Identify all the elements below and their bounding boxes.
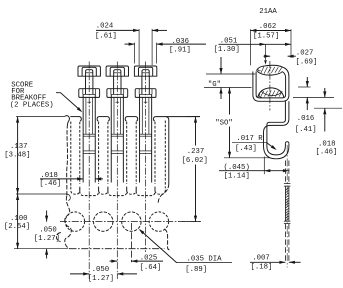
svg-text:[.46]: [.46] (315, 149, 337, 157)
ext line (314, 107, 342, 109)
svg-text:.024: .024 (96, 22, 114, 30)
pin 2 body (110, 95, 112, 183)
svg-text:[.43]: [.43] (235, 145, 257, 153)
S-bend to solder tail, left boundary (264, 101, 289, 159)
svg-text:[1.14]: [1.14] (224, 173, 250, 181)
svg-text:[.61]: [.61] (95, 32, 117, 40)
hole 3 CL extension (130, 223, 132, 262)
pin 2 stem (113, 76, 115, 94)
pin 2 centerline (116, 62, 118, 280)
pin 3 slot walls (136, 117, 138, 122)
pin 2 lower cap (107, 89, 128, 98)
ext line right (290, 29, 292, 58)
strip top edge (70, 116, 79, 118)
label "SO" (229, 88, 231, 115)
ext line hook bottom (224, 157, 270, 159)
ext top (16, 116, 64, 118)
solder tail (broken view) (284, 161, 286, 184)
pin 3 top cap (134, 66, 156, 76)
pin 3 body (139, 95, 141, 183)
ext line inner-bottom (293, 96, 334, 98)
pin 3 lower cap (135, 89, 156, 98)
pin 1 lower cap (79, 89, 100, 98)
svg-text:[.46]: [.46] (39, 180, 61, 188)
right break lower (165, 229, 172, 250)
svg-text:.017 R: .017 R (236, 135, 263, 143)
svg-text:[.64]: [.64] (140, 264, 162, 272)
left edge scallop (56, 233, 60, 242)
svg-text:.062: .062 (259, 23, 277, 31)
left web outer wall (70, 122, 72, 187)
hole 3 (122, 212, 141, 231)
pin 1 body (82, 95, 84, 183)
svg-text:.100: .100 (10, 215, 28, 223)
svg-text:[.89]: [.89] (185, 266, 207, 274)
right web outer wall (164, 121, 166, 187)
side view sheet inner boundary (256, 72, 286, 98)
svg-text:.016: .016 (297, 115, 315, 123)
svg-text:(2 PLACES): (2 PLACES) (10, 101, 54, 109)
svg-text:.007: .007 (252, 255, 270, 263)
tail break marks (284, 183, 291, 185)
svg-text:.018: .018 (318, 141, 336, 149)
svg-text:.027: .027 (296, 49, 314, 57)
ext line G top (206, 73, 255, 75)
tail hatch section (286, 188, 289, 190)
hole 1 (phantom) (65, 212, 84, 231)
right break edge (166, 117, 169, 184)
svg-text:[1.27]: [1.27] (34, 235, 60, 243)
hole centerline horizontal (60, 221, 201, 223)
ext line (298, 86, 311, 88)
hole 4 (phantom) (149, 212, 168, 231)
hole 2 (94, 212, 113, 231)
pin 1 slot walls (80, 117, 82, 122)
tail centerline (286, 145, 288, 268)
leader shelf (176, 262, 232, 264)
svg-text:[.69]: [.69] (295, 58, 317, 66)
pin 1 score lines (83, 133, 95, 135)
pin 1 centerline (88, 62, 90, 280)
ext line (151, 29, 153, 65)
S-bend to solder tail, right boundary (267, 101, 286, 155)
pin 2 top cap (106, 66, 128, 76)
carrier bottom edge (phantom) (70, 248, 165, 250)
ext line G bottom (204, 87, 252, 89)
svg-text:[.91]: [.91] (169, 47, 191, 55)
svg-text:[1.30]: [1.30] (214, 46, 240, 54)
svg-text:"SO": "SO" (215, 119, 233, 127)
svg-text:.137: .137 (10, 143, 28, 151)
comb bottom scallops (71, 187, 80, 194)
lower curl hatching (261, 91, 264, 97)
svg-text:.036: .036 (172, 38, 190, 46)
ext bottom (14, 248, 68, 250)
ext line hook left (263, 157, 265, 175)
side view sheet outer boundary (253, 67, 289, 101)
lower curl (rolled contact) (258, 88, 284, 98)
pin 3 score lines (140, 133, 152, 135)
tail stub rounded end (285, 142, 289, 144)
ext line (138, 29, 140, 65)
centerline of curls (269, 61, 271, 111)
svg-text:[.41]: [.41] (295, 126, 317, 134)
left break edge (64, 116, 69, 124)
svg-text:[1.57]: [1.57] (253, 33, 279, 41)
break squiggle mid (67, 194, 70, 201)
ext mid (16, 193, 67, 195)
top curl (rolled contact) (257, 65, 284, 70)
svg-text:[1.27]: [1.27] (88, 275, 114, 283)
lower curl tip (259, 94, 262, 97)
pin 3 stem (141, 76, 143, 94)
pin 3 centerline (145, 62, 147, 253)
pin 2 slot walls (108, 117, 110, 122)
pin 2 score lines (111, 133, 123, 135)
svg-text:[6.02]: [6.02] (182, 157, 208, 165)
svg-text:.237: .237 (187, 148, 205, 156)
pin 1 stem (85, 76, 87, 94)
curl tip roll (258, 68, 261, 70)
ext line left (249, 29, 251, 65)
svg-text:21AA: 21AA (259, 8, 277, 16)
svg-text:[2.54]: [2.54] (4, 223, 30, 231)
pin 1 top cap (78, 66, 100, 76)
svg-text:[.18]: [.18] (251, 264, 273, 272)
svg-text:.050: .050 (92, 266, 110, 274)
svg-text:.050: .050 (39, 226, 57, 234)
top curl hatching (261, 67, 264, 74)
